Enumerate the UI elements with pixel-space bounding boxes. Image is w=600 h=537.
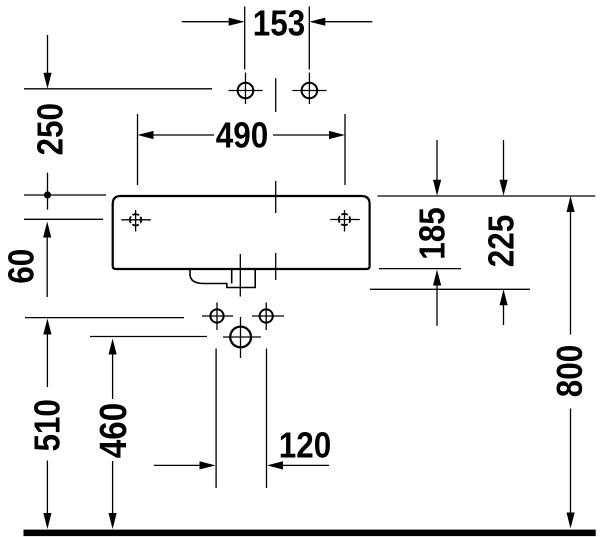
dimension 490 left arrow — [138, 131, 215, 139]
reference line fixing hole level (left) — [24, 218, 103, 220]
svg-text:153: 153 — [253, 3, 306, 44]
svg-text:250: 250 — [30, 103, 71, 156]
reference line basin bottom extended right (185 dim) — [379, 268, 461, 270]
dimension 185 bottom arrow — [433, 270, 441, 326]
extension line left tap hole (153 dim) — [244, 7, 246, 70]
fixing hole left crosshair — [121, 210, 150, 232]
reference line drain hole level (460 dim) — [90, 336, 207, 338]
dimension 250/60 shared stem with dot terminator — [44, 173, 51, 210]
svg-text:225: 225 — [481, 215, 522, 268]
small outlet hole left crosshair — [202, 302, 233, 330]
fixing hole left (dashed circle) — [130, 214, 141, 225]
fixing hole right crosshair — [330, 210, 360, 232]
tap hole left crosshair — [229, 73, 263, 104]
tap hole right crosshair — [292, 73, 326, 104]
floor line — [24, 530, 596, 537]
drain pipe left wall — [231, 269, 233, 284]
dimension 225 bottom arrow — [500, 289, 508, 325]
drain center line (dashed) — [239, 254, 241, 358]
dimension 120 right arrow — [267, 461, 329, 469]
svg-text:510: 510 — [27, 399, 68, 452]
svg-text:800: 800 — [549, 345, 590, 398]
dimension 120 left arrow — [154, 461, 216, 469]
dimension 153 left arrow — [182, 18, 245, 26]
basin outline — [113, 196, 370, 269]
reference line small holes level (510 dim) — [25, 317, 184, 319]
main drain hole — [230, 327, 251, 348]
reference line drain bottom extended right (225 dim) — [370, 288, 530, 290]
svg-text:60: 60 — [1, 249, 42, 284]
center line between tap holes (dashed) — [275, 78, 277, 280]
dimension 225 top arrow — [500, 140, 508, 196]
small hole right center line extension — [266, 349, 268, 489]
dimension 185 top arrow — [433, 140, 441, 196]
small outlet hole right crosshair — [252, 302, 284, 330]
svg-text:460: 460 — [93, 403, 135, 459]
dimension 250 down arrow — [43, 35, 51, 89]
dimension 60 up arrow — [43, 222, 51, 298]
tap hole right circle — [302, 83, 318, 99]
extension line right tap hole (153 dim) — [308, 7, 310, 70]
dimension 490 right arrow — [273, 131, 345, 139]
extension line right (490 dim) — [344, 114, 346, 185]
dimension 510 — [43, 319, 51, 530]
svg-text:490: 490 — [216, 115, 269, 156]
tap hole left circle — [238, 83, 254, 99]
small outlet hole left — [210, 309, 223, 322]
small hole left center line extension — [215, 349, 217, 489]
reference line rim level extended right (800/185/225 dims) — [377, 195, 595, 197]
reference line tap hole plane (250 dim top) — [24, 88, 212, 90]
svg-text:185: 185 — [412, 207, 453, 260]
fixing hole right (dashed circle) — [339, 214, 350, 225]
dimension 460 — [109, 339, 117, 530]
extension line left (490 dim) — [137, 114, 139, 185]
dimension 800 — [567, 196, 575, 529]
small outlet hole right — [260, 309, 273, 322]
svg-text:120: 120 — [279, 425, 332, 466]
reference line basin rim level (left) — [24, 194, 106, 196]
drain / siphon outline — [190, 269, 255, 288]
dimension 153 right arrow — [309, 18, 372, 26]
main drain hole crosshair — [223, 336, 261, 338]
